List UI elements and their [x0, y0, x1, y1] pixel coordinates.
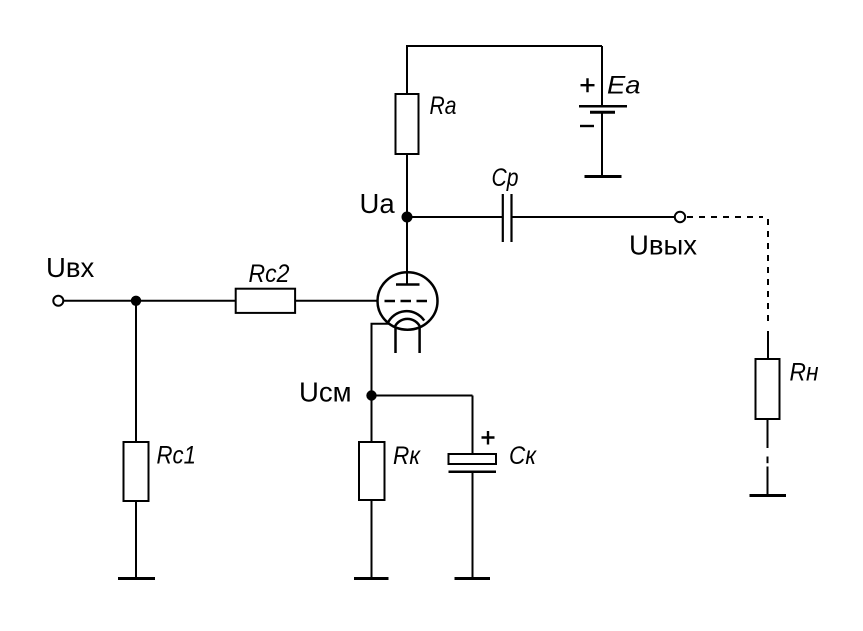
resistor Rc2 [236, 260, 295, 313]
svg-text:Rн: Rн [790, 359, 819, 387]
node Ua [360, 188, 413, 223]
wire Usm to Ck [372, 395, 473, 397]
wire Rc2 to tube grid [296, 300, 378, 302]
svg-text:Rc2: Rc2 [249, 260, 290, 288]
wire Rc1 bottom lead [135, 501, 137, 578]
wire Ra bottom to tube anode [406, 154, 408, 285]
svg-text:Rк: Rк [393, 442, 421, 470]
wire input to Rc2 [64, 300, 236, 302]
terminal Uvh [46, 252, 94, 306]
triode tube envelope [378, 272, 438, 329]
wire Rk bottom lead [371, 500, 373, 578]
wire junction down to Rc1 [135, 301, 137, 442]
capacitor Cp [492, 164, 519, 242]
triode heater arc [395, 319, 420, 327]
svg-text:Ea: Ea [607, 72, 641, 100]
wire Rn top lead [767, 331, 769, 359]
resistor Ra [396, 92, 457, 154]
wire Ua to Cp [407, 216, 502, 218]
terminal Uvyh [629, 212, 697, 261]
wire Ck top lead [472, 396, 474, 455]
battery Ea top lead [601, 46, 603, 106]
svg-text:Uсм: Uсм [299, 377, 352, 408]
svg-text:Cp: Cp [492, 164, 519, 192]
svg-text:Uвх: Uвх [46, 252, 94, 283]
capacitor Ck [449, 431, 538, 472]
resistor Rk [359, 442, 421, 500]
ground below Rc1 [118, 577, 155, 580]
wire battery bottom lead [601, 112, 603, 176]
svg-text:Ua: Ua [360, 188, 396, 219]
ground below Ea [585, 175, 622, 178]
wire Cp to output terminal [513, 216, 675, 218]
triode cathode arc [387, 311, 424, 324]
svg-text:Uвых: Uвых [629, 230, 697, 261]
ground below Ck [455, 577, 491, 580]
wire Usm down to Rk [371, 396, 373, 443]
svg-text:Cк: Cк [509, 442, 537, 470]
wire Rn bottom dash-dot lead [767, 419, 769, 495]
triode heater legs [396, 327, 420, 353]
triode grid (dashed) [385, 300, 428, 303]
wire Ck bottom lead [472, 472, 474, 578]
wire Ra top lead [406, 45, 408, 94]
node input junction [131, 296, 141, 306]
wire cathode lead [372, 324, 389, 396]
svg-text:Ra: Ra [430, 92, 457, 120]
triode anode bar [396, 283, 420, 286]
wire dashed output to Rn [687, 217, 768, 322]
node Usm [299, 377, 377, 408]
ground below Rk [354, 577, 389, 580]
resistor Rn [756, 359, 819, 420]
wire top bus from Ra to Ea [407, 45, 602, 47]
ground below Rn [750, 494, 787, 497]
battery Ea [579, 72, 641, 127]
svg-text:Rc1: Rc1 [157, 442, 197, 470]
resistor Rc1 [124, 442, 197, 502]
